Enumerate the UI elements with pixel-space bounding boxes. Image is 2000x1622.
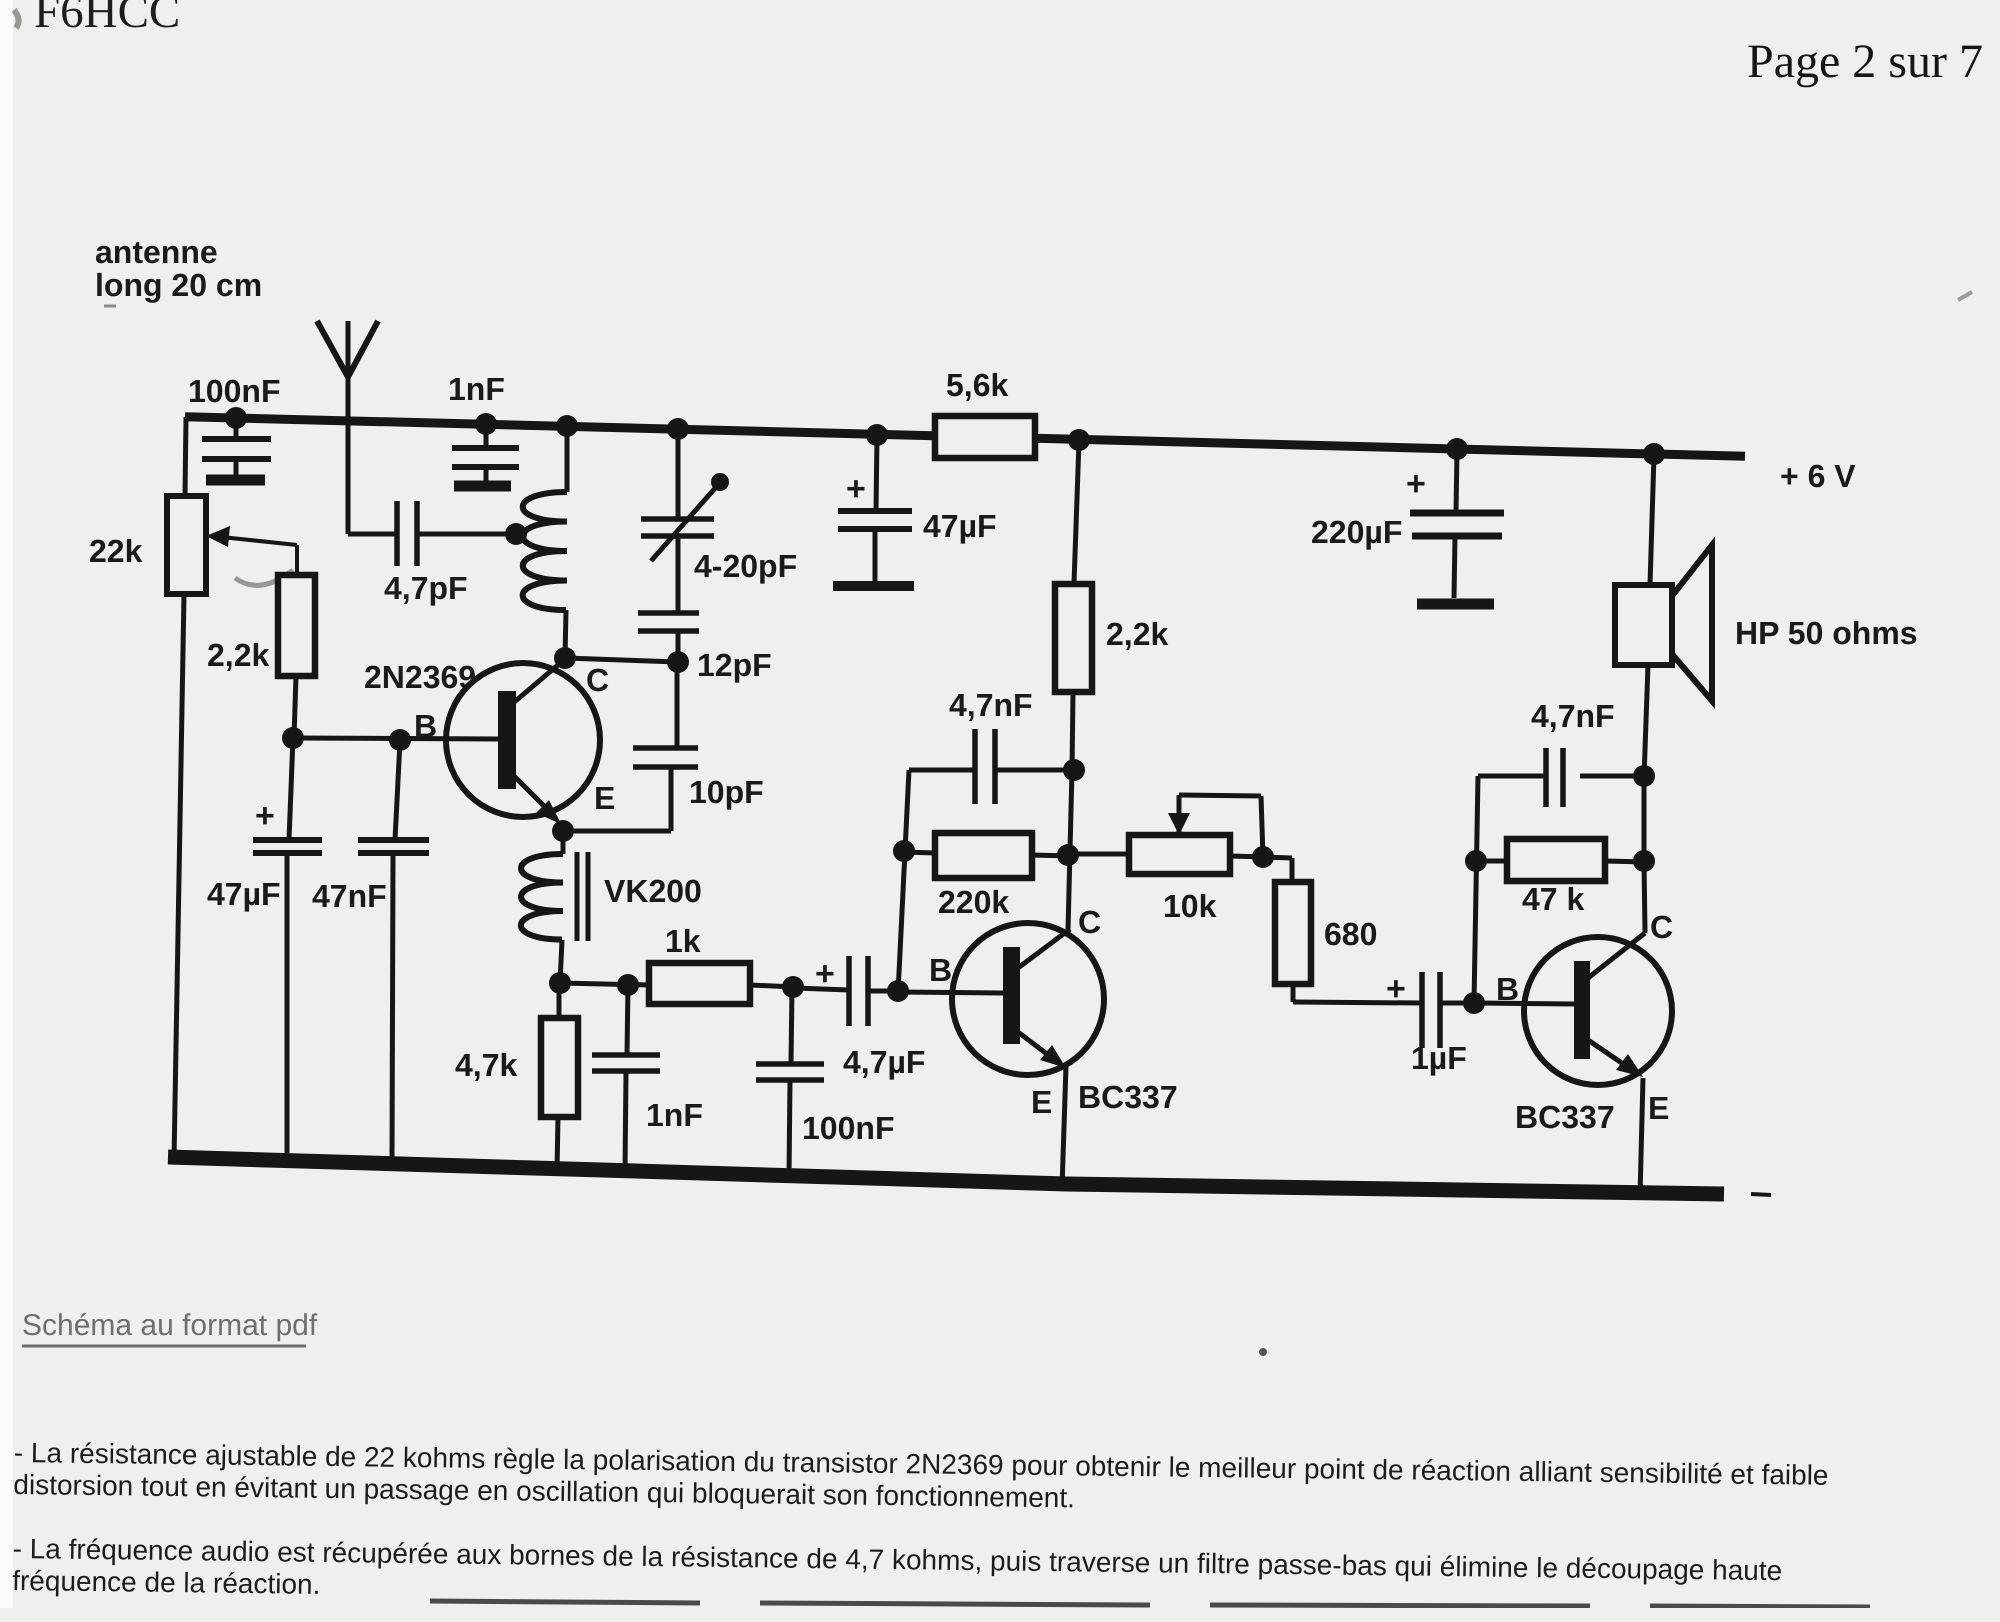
svg-text:10k: 10k [1163,888,1217,924]
svg-text:E: E [1648,1090,1669,1126]
svg-text:100nF: 100nF [802,1110,894,1146]
transistor Q1 2N2369 [446,663,600,817]
node B2 base junction [887,980,909,1002]
svg-text:+ 6 V: + 6 V [1780,458,1856,494]
speaker HP 50 ohms [1650,455,1654,585]
resistor 2,2k (stage 2 collector) [1074,441,1079,584]
capacitor 1nF (filter) [627,985,628,1055]
svg-text:HP 50 ohms: HP 50 ohms [1735,615,1918,651]
node coil tap junction [505,523,527,545]
resistor 1k [649,963,750,1004]
node rail/2,2k junction [1068,429,1090,451]
svg-text:4,7nF: 4,7nF [949,687,1033,723]
svg-text:47µF: 47µF [923,508,997,544]
svg-text:+: + [815,955,835,993]
svg-text:1nF: 1nF [646,1097,703,1133]
transistor Q2 BC337 [952,923,1104,1075]
wire speaker to C3 [1642,776,1647,861]
svg-text:2,2k: 2,2k [207,637,269,673]
node 1k/1nF junction [617,974,639,996]
capacitor 1µF (coupling, electrolytic) [1293,1002,1422,1003]
svg-text:4,7nF: 4,7nF [1531,698,1615,734]
svg-text:antenne: antenne [95,234,218,270]
node rail/coil junction [556,415,578,437]
svg-text:+: + [255,797,275,835]
wire stage2 left vertical [898,770,909,993]
svg-text:47nF: 47nF [312,878,387,914]
potentiometer 22k [167,496,206,594]
svg-text:B: B [1496,971,1519,1007]
capacitor 1nF (rail decoupling) [484,424,489,446]
resistor 680 [1263,857,1292,858]
small scan artifacts [1259,1348,1267,1356]
ground rail (bottom) [168,1157,1724,1194]
svg-text:long 20 cm: long 20 cm [95,267,262,303]
node 220k left junction [893,840,915,862]
node rail/speaker junction [1643,443,1665,465]
svg-text:+: + [1386,970,1406,1008]
node rail/4-20pF junction [667,418,689,440]
capacitor 47µF (rail, electrolytic) [876,436,877,511]
svg-text:B: B [414,708,437,744]
trimmer capacitor 4-20pF [676,429,681,519]
svg-text:C: C [1650,909,1673,945]
resistor 220k [903,852,935,853]
node 12pF/10pF junction [667,651,689,673]
+6V rail [185,417,1745,457]
wire left vertical (rail to 22k pot) [185,417,186,496]
svg-text:C: C [586,662,609,698]
svg-text:220k: 220k [938,884,1009,920]
svg-text:4-20pF: 4-20pF [694,548,797,584]
svg-text:C: C [1078,904,1101,940]
node 220k/10k junction [1057,844,1079,866]
resistor 47k [1478,859,1507,864]
node rail/100nF junction [225,407,247,429]
svg-text:VK200: VK200 [604,873,702,909]
node rail/47uF junction [866,424,888,446]
svg-text:E: E [1031,1084,1052,1120]
bottom paragraphs [12,1437,2000,1622]
resistor 4,7k [557,983,562,1018]
minus label [1751,1194,1771,1195]
svg-text:47µF: 47µF [207,876,281,912]
capacitor 4,7nF (stage 2 feedback) [909,768,975,773]
inductor L1 (tuning coil) [523,492,567,610]
node VK200/4,7k junction [549,972,571,994]
svg-text:100nF: 100nF [188,373,280,409]
node rail/220uF junction [1446,438,1468,460]
base wire Q1 [294,738,498,739]
svg-text:5,6k: 5,6k [946,367,1008,403]
wire collector node [565,658,678,662]
capacitor 10pF [675,662,680,748]
capacitor 47µF (emitter, electrolytic) [289,738,293,840]
wire 10pF to emitter [565,829,671,834]
resistor 5,6k (rail) [935,416,1035,458]
svg-text:+: + [846,470,866,508]
node B3 base junction [1463,992,1485,1014]
node C1 collector junction [554,647,576,669]
svg-text:BC337: BC337 [1515,1099,1615,1135]
node rail/1nF junction [475,413,497,435]
svg-text:2,2k: 2,2k [1106,616,1168,652]
svg-text:220µF: 220µF [1311,514,1402,550]
svg-text:4,7k: 4,7k [455,1047,517,1083]
svg-text:Page 2 sur 7: Page 2 sur 7 [1747,35,1983,88]
capacitor 4,7nF (stage 3 feedback) [1580,774,1644,779]
node 1k/100nF junction [782,976,804,998]
wire coil to collector node [565,610,566,658]
node C2 collector junction [1063,759,1085,781]
svg-text:Schéma au format pdf: Schéma au format pdf [22,1309,318,1342]
node 10k wiper junction [1252,846,1274,868]
node B1 base junction (2,2k/47uF) [282,727,304,749]
capacitor 4,7pF [394,501,400,566]
wire C2 vertical [1068,770,1072,930]
capacitor 12pF [676,536,681,613]
node speaker/4,7nF junction [1633,765,1655,787]
svg-text:B: B [929,952,952,988]
svg-text:1µF: 1µF [1411,1040,1467,1076]
capacitor 47nF [395,741,400,840]
svg-text:F6HCC: F6HCC [34,0,180,38]
node E1 emitter junction [552,820,574,842]
svg-text:2N2369: 2N2369 [364,659,476,695]
svg-text:+: + [1406,465,1426,503]
node 47k right junction [1633,850,1655,872]
node B1 base junction (47nF) [389,729,411,751]
wire VK200 node [560,983,649,985]
svg-text:1k: 1k [665,923,701,959]
svg-text:10pF: 10pF [689,774,764,810]
capacitor 4,7µF (coupling) [795,988,849,990]
left white scanner margin [0,0,13,1608]
wire rail to coil [565,426,570,492]
antenna [346,321,351,534]
resistor 2,2k (base bias) [278,575,315,676]
transistor Q3 BC337 [1524,937,1672,1085]
inductor VK200 (choke) [561,831,566,854]
svg-text:1nF: 1nF [448,371,505,407]
potentiometer 10k [1070,852,1129,857]
svg-text:4,7µF: 4,7µF [843,1044,925,1080]
pencil mark artifact [235,570,293,585]
node 47k left junction [1465,850,1487,872]
capacitor 100nF (rail decoupling) [234,418,239,437]
capacitor 220µF (rail, electrolytic) [1456,450,1457,513]
svg-text:47 k: 47 k [1522,881,1584,917]
svg-text:680: 680 [1324,916,1377,952]
svg-text:BC337: BC337 [1078,1079,1178,1115]
svg-text:4,7pF: 4,7pF [384,570,468,606]
wire 22k pot to ground rail [174,594,184,1160]
svg-text:22k: 22k [89,533,143,569]
capacitor 100nF (filter) [791,987,792,1064]
svg-text:E: E [594,780,615,816]
svg-text:12pF: 12pF [697,647,772,683]
